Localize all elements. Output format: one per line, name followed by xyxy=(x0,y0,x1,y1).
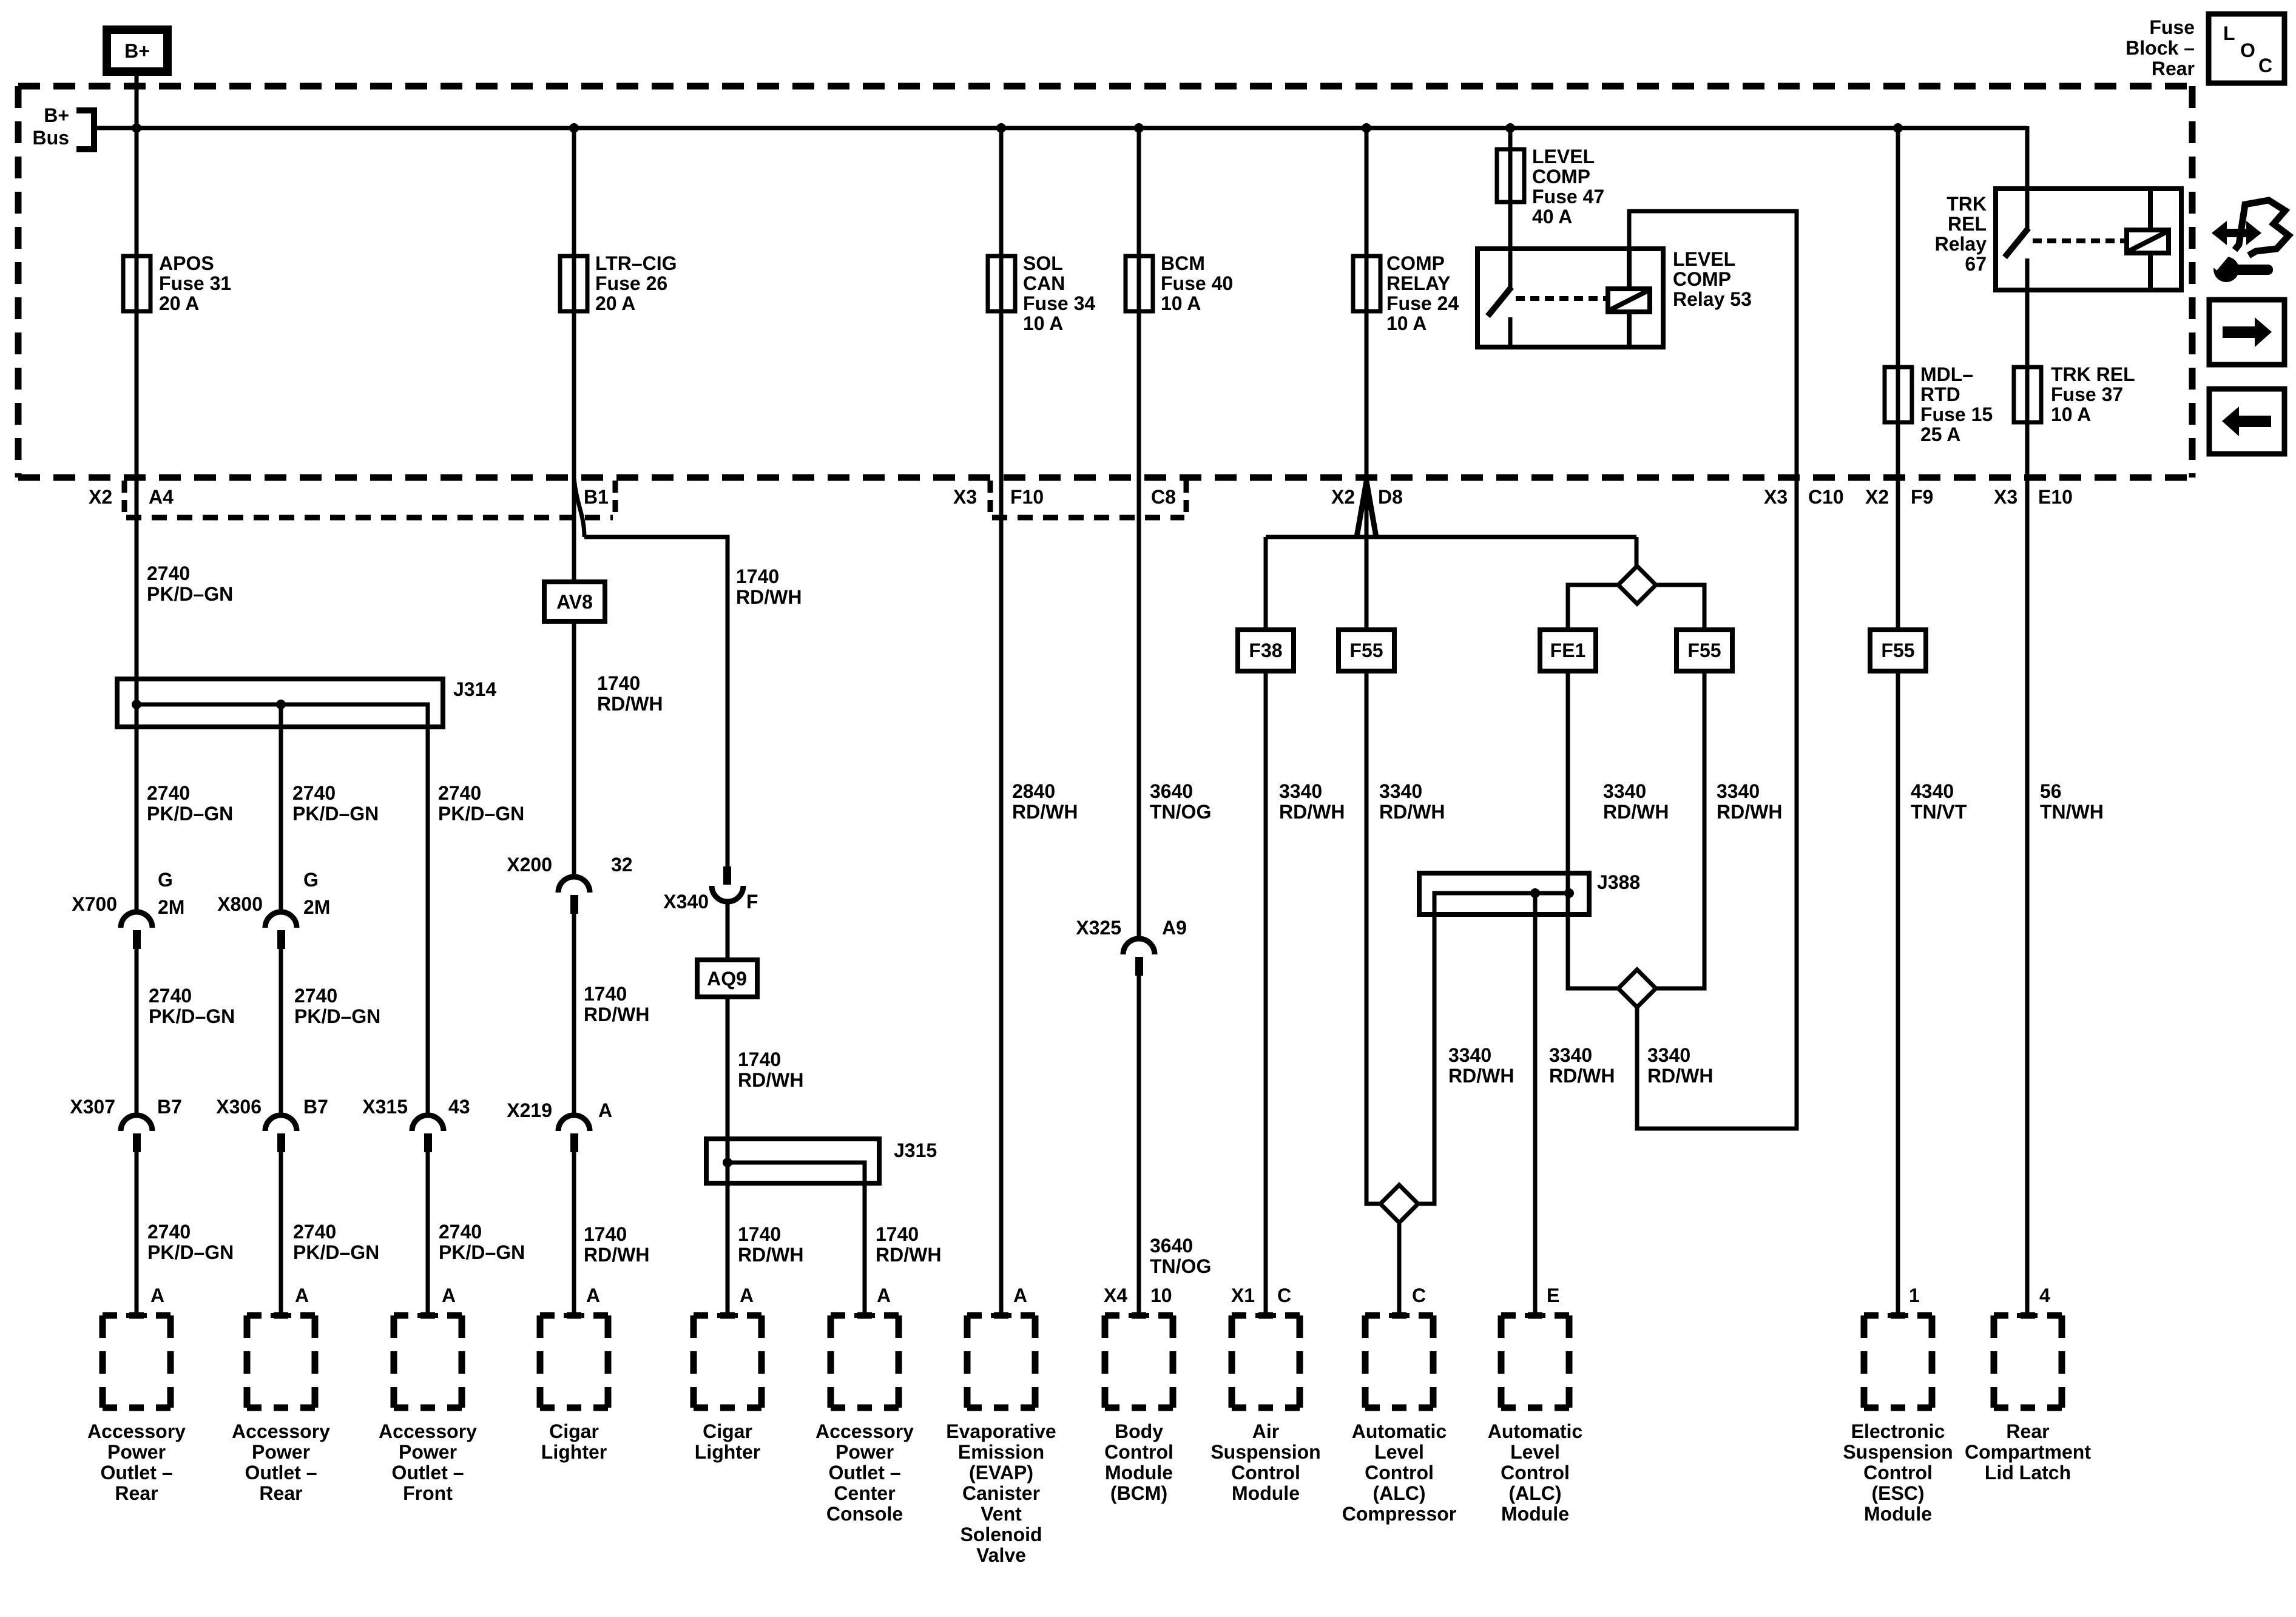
relay 67 switch lower stub xyxy=(2025,258,2030,290)
relay 53 switch lower stub xyxy=(1508,317,1513,347)
svg-text:E: E xyxy=(1547,1284,1559,1306)
wire B+ terminal to bus xyxy=(135,72,139,311)
fuse MDL-RTD Fuse 15 xyxy=(1885,367,1912,422)
pin bar box10 xyxy=(1389,1313,1410,1318)
wire LTR-CIG fuse to AV8 xyxy=(572,311,576,582)
wire AQ9 to J315 xyxy=(726,997,730,1315)
svg-text:F55: F55 xyxy=(1881,640,1914,661)
svg-text:F55: F55 xyxy=(1687,640,1721,661)
relay 67 switch upper stub xyxy=(2025,189,2030,229)
svg-text:B+: B+ xyxy=(124,40,150,62)
connector X800 pin bar xyxy=(277,930,285,949)
connector box accessory power outlet center console xyxy=(831,1315,899,1408)
svg-text:B7: B7 xyxy=(303,1096,328,1118)
relay 67 coil xyxy=(2127,230,2169,253)
svg-text:F10: F10 xyxy=(1010,486,1044,508)
relay LEVEL COMP Relay 53 box xyxy=(1477,249,1663,347)
wire D8 triangle xyxy=(1357,478,1376,537)
svg-text:1: 1 xyxy=(1909,1284,1920,1306)
wire bus to SOL CAN fuse xyxy=(999,128,1004,311)
svg-text:FE1: FE1 xyxy=(1550,640,1586,661)
svg-text:F9: F9 xyxy=(1911,486,1933,508)
wire diamond 2 to C10 xyxy=(1637,478,1797,1129)
terminal box F55 (diamond right leg) xyxy=(1676,630,1732,671)
terminal box F55 (MDL-RTD leg) xyxy=(1870,630,1926,671)
svg-text:X3: X3 xyxy=(1764,486,1788,508)
terminal box F38 xyxy=(1238,630,1294,671)
svg-text:X340: X340 xyxy=(663,891,709,913)
wire F55 to diamond 3 xyxy=(1366,671,1382,1204)
wire X200 to X219 xyxy=(572,914,576,1116)
fuse block dashed border right xyxy=(2189,86,2196,478)
wire branch to diamond 1 xyxy=(1635,537,1639,566)
node bus/LEVEL COMP fuse xyxy=(1505,123,1515,133)
wire relay 53 coil to C10 xyxy=(1629,211,1797,478)
connector box rear compartment lid latch xyxy=(1994,1315,2062,1408)
pin bar box9 xyxy=(1255,1313,1276,1318)
fuse LEVEL COMP Fuse 47 xyxy=(1497,149,1524,202)
svg-text:X700: X700 xyxy=(72,893,117,915)
connector X340 cup arc xyxy=(712,886,743,902)
wire branch to F38 xyxy=(1264,537,1268,630)
splice pack J314 box xyxy=(117,679,443,727)
wire X325 to BCM xyxy=(1137,976,1141,1315)
svg-text:X800: X800 xyxy=(217,893,263,915)
wire MDL-RTD fuse to F9 xyxy=(1896,422,1900,630)
wire X340 to AQ9 xyxy=(726,902,730,960)
wire B1 branch curve xyxy=(574,479,584,537)
wire bus to LTR-CIG fuse xyxy=(572,128,576,311)
wire SOL CAN fuse to EVAP valve xyxy=(999,311,1004,1315)
relay 67 actuator dashed link xyxy=(2033,238,2126,243)
node J388 FE1 wire xyxy=(1564,888,1574,898)
connector strip separator after X3 xyxy=(988,481,993,519)
svg-text:B+: B+ xyxy=(44,104,69,126)
diamond 2 xyxy=(1618,970,1656,1007)
node J314 wire1 xyxy=(132,700,141,709)
svg-text:F38: F38 xyxy=(1249,640,1282,661)
wire X315 to outlet front xyxy=(426,1152,430,1315)
svg-text:C8: C8 xyxy=(1151,486,1176,508)
node bus/COMP RELAY fuse xyxy=(1362,123,1371,133)
relay 53 switch upper stub xyxy=(1508,249,1513,288)
relay 67 switch blade xyxy=(2005,228,2028,257)
connector strip separator after B1 xyxy=(613,481,618,519)
connector X315 pin bar xyxy=(424,1133,432,1152)
svg-text:X306: X306 xyxy=(216,1096,262,1118)
connector X307 arc xyxy=(121,1115,152,1131)
terminal box FE1 xyxy=(1540,630,1596,671)
connector box ESC module xyxy=(1864,1315,1932,1408)
wire D8 down to F55 xyxy=(1365,537,1369,630)
wire bus to BCM fuse xyxy=(1137,128,1141,311)
connector X306 arc xyxy=(265,1115,297,1131)
svg-text:X2: X2 xyxy=(1331,486,1355,508)
svg-text:C: C xyxy=(1412,1284,1426,1306)
svg-text:X3: X3 xyxy=(1994,486,2017,508)
node J315 xyxy=(723,1158,732,1167)
icon arrow right box xyxy=(2209,300,2284,365)
svg-text:X200: X200 xyxy=(507,854,552,876)
B+ bus bracket xyxy=(76,110,94,149)
svg-text:A: A xyxy=(877,1284,891,1306)
svg-text:F: F xyxy=(746,891,758,913)
svg-text:C: C xyxy=(2258,55,2272,76)
svg-text:AutomaticLevelControl(ALC)Modu: AutomaticLevelControl(ALC)Module xyxy=(1488,1420,1582,1525)
svg-text:A: A xyxy=(586,1284,600,1306)
relay 53 switch blade xyxy=(1488,287,1511,316)
connector strip separator after X2 xyxy=(122,481,127,519)
B+ bus wire xyxy=(94,126,2027,130)
connector box cigar lighter 2 xyxy=(694,1315,761,1408)
fuse TRK REL Fuse 37 xyxy=(2014,367,2041,422)
connector box accessory power outlet rear 1 xyxy=(103,1315,171,1408)
wire TRK REL fuse to E10 xyxy=(2025,422,2030,1315)
svg-text:C10: C10 xyxy=(1808,486,1844,508)
wire diamond 1 right to F55 xyxy=(1656,585,1704,630)
connector box ALC module xyxy=(1501,1315,1569,1408)
svg-text:AccessoryPowerOutlet –CenterCo: AccessoryPowerOutlet –CenterConsole xyxy=(815,1420,914,1525)
svg-text:X219: X219 xyxy=(507,1099,552,1121)
wire X306 to outlet rear 2 xyxy=(279,1152,283,1315)
connector box ALC compressor xyxy=(1365,1315,1433,1408)
svg-text:CigarLighter: CigarLighter xyxy=(695,1420,760,1463)
fuse LTR-CIG Fuse 26 xyxy=(560,256,587,311)
svg-text:A: A xyxy=(740,1284,754,1306)
wire MDL-RTD F55 to ESC module xyxy=(1896,671,1900,1315)
connector box BCM xyxy=(1105,1315,1173,1408)
J314 internal bus xyxy=(137,704,428,727)
svg-text:X2: X2 xyxy=(89,486,112,508)
relay 67 divider lower xyxy=(2148,253,2153,290)
wire LEVEL COMP fuse to relay 53 xyxy=(1508,202,1513,249)
wire relay 67 to TRK REL fuse xyxy=(2025,290,2030,422)
connector strip separator after C8 xyxy=(1184,481,1189,519)
wire B1 branch horizontal xyxy=(584,537,728,866)
svg-text:D8: D8 xyxy=(1378,486,1403,508)
node J388 ALC module tap xyxy=(1530,888,1540,898)
wire F55 right leg to diamond 2 xyxy=(1656,671,1704,988)
junction box AV8 xyxy=(544,582,605,621)
junction box AQ9 xyxy=(697,960,757,997)
terminal box F55 (fuse 24 leg) xyxy=(1339,630,1394,671)
svg-text:10: 10 xyxy=(1150,1284,1172,1306)
J315 internal bus xyxy=(728,1163,865,1183)
svg-text:L: L xyxy=(2223,22,2235,44)
connector X219 pin bar xyxy=(570,1133,578,1152)
fuse APOS Fuse 31 xyxy=(123,256,150,311)
svg-text:J314: J314 xyxy=(453,678,496,700)
wire X219 to cigar lighter xyxy=(572,1152,576,1315)
connector X200 pin bar xyxy=(570,895,578,914)
svg-text:C: C xyxy=(1277,1284,1291,1306)
wire diamond 1 left to FE1 xyxy=(1568,585,1618,630)
svg-text:J388: J388 xyxy=(1597,871,1640,893)
wire J315 to center console outlet xyxy=(863,1183,867,1315)
svg-text:A: A xyxy=(150,1284,164,1306)
pin bar box2 xyxy=(271,1313,291,1318)
svg-text:EvaporativeEmission(EVAP)Canis: EvaporativeEmission(EVAP)CanisterVentSol… xyxy=(946,1420,1056,1566)
pin bar box8 xyxy=(1129,1313,1149,1318)
connector X340 pin bar xyxy=(723,866,731,885)
svg-text:A: A xyxy=(1013,1284,1027,1306)
connector X700 pin bar xyxy=(133,930,141,949)
fuse block dashed border left xyxy=(15,86,22,478)
connector X307 pin bar xyxy=(133,1133,141,1152)
wire APOS fuse to J314 xyxy=(135,311,139,913)
splice pack J388 box xyxy=(1419,873,1589,914)
pin bar box6 xyxy=(854,1313,875,1318)
fuse SOL CAN Fuse 34 xyxy=(988,256,1015,311)
svg-text:X2: X2 xyxy=(1865,486,1889,508)
wire J314 to X800 xyxy=(279,704,283,913)
connector strip X2/A4..B1 dashed line xyxy=(126,515,613,521)
pin bar box7 xyxy=(991,1313,1011,1318)
connector strip X3/F10..C8 dashed line xyxy=(992,515,1184,521)
svg-text:X4: X4 xyxy=(1104,1284,1127,1306)
wire X700 to X307 xyxy=(135,949,139,1116)
node bus/APOS xyxy=(132,123,141,133)
wire X800 to X306 xyxy=(279,949,283,1116)
connector X219 arc xyxy=(558,1115,590,1131)
svg-text:4: 4 xyxy=(2039,1284,2050,1306)
wire J388 to ALC module xyxy=(1533,893,1538,1315)
svg-text:X325: X325 xyxy=(1076,917,1121,939)
svg-text:43: 43 xyxy=(448,1096,470,1118)
relay 53 actuator dashed link xyxy=(1516,296,1607,301)
wire BCM fuse to X325 xyxy=(1137,311,1141,940)
svg-text:AV8: AV8 xyxy=(556,591,593,613)
node J314 wire2 xyxy=(276,700,286,709)
svg-text:A4: A4 xyxy=(149,486,174,508)
wire bus to LEVEL COMP fuse xyxy=(1508,128,1513,202)
svg-text:BodyControlModule(BCM): BodyControlModule(BCM) xyxy=(1104,1420,1173,1504)
node bus/BCM fuse xyxy=(1134,123,1144,133)
wire J314 to X315 xyxy=(426,727,430,1116)
bus corner to TRK REL relay xyxy=(2025,126,2030,189)
fuse COMP RELAY Fuse 24 xyxy=(1353,256,1380,311)
connector box air suspension module xyxy=(1232,1315,1300,1408)
connector X325 arc xyxy=(1123,939,1155,954)
relay 67 divider upper xyxy=(2148,189,2153,230)
svg-text:B1: B1 xyxy=(584,486,609,508)
connector box accessory power outlet rear 2 xyxy=(247,1315,315,1408)
pin bar box11 xyxy=(1525,1313,1545,1318)
pin bar box4 xyxy=(564,1313,584,1318)
icon arrow left box xyxy=(2209,389,2284,454)
node bus/MDL-RTD xyxy=(1893,123,1903,133)
relay 53 coil xyxy=(1608,289,1650,312)
wire FE1 to J388 to diamond 2 xyxy=(1568,671,1618,988)
pin bar box12 xyxy=(1888,1313,1908,1318)
relay TRK REL Relay 67 box xyxy=(1996,189,2181,290)
connector box cigar lighter 1 xyxy=(540,1315,608,1408)
diamond 1 xyxy=(1618,566,1656,604)
wire AV8 to X200 xyxy=(572,621,576,877)
svg-text:Bus: Bus xyxy=(33,127,69,149)
wire X307 to outlet rear 1 xyxy=(135,1152,139,1315)
svg-text:X1: X1 xyxy=(1231,1284,1255,1306)
LOC icon box xyxy=(2209,14,2284,83)
svg-text:CigarLighter: CigarLighter xyxy=(541,1420,607,1463)
connector X800 arc xyxy=(265,912,297,928)
svg-text:A: A xyxy=(442,1284,456,1306)
wire bus to COMP RELAY fuse xyxy=(1365,128,1369,311)
svg-text:A: A xyxy=(598,1099,612,1121)
wire F38 to air suspension module xyxy=(1264,671,1268,1315)
fuse block dashed border bottom xyxy=(18,474,2195,481)
svg-text:A9: A9 xyxy=(1162,917,1187,939)
icon wiring repair (double arrow, hook, wrench) xyxy=(2210,200,2289,282)
connector X700 arc xyxy=(121,912,152,928)
svg-text:O: O xyxy=(2240,39,2255,61)
connector X200 arc xyxy=(558,877,590,893)
svg-text:E10: E10 xyxy=(2038,486,2073,508)
svg-text:32: 32 xyxy=(611,854,633,876)
svg-text:AQ9: AQ9 xyxy=(707,968,747,990)
svg-text:X307: X307 xyxy=(70,1096,115,1118)
node bus/SOL CAN xyxy=(996,123,1006,133)
fuse block dashed border top xyxy=(18,83,2195,90)
svg-text:A: A xyxy=(295,1284,309,1306)
J388 internal bus xyxy=(1434,893,1570,914)
pin bar box5 xyxy=(717,1313,738,1318)
connector box EVAP valve xyxy=(967,1315,1035,1408)
splice pack J315 box xyxy=(706,1139,879,1183)
pin bar box3 xyxy=(417,1313,438,1318)
wire bus to MDL-RTD fuse xyxy=(1896,128,1900,422)
B+ terminal box xyxy=(107,30,167,72)
wire diamond 3 to ALC compressor xyxy=(1397,1223,1402,1315)
svg-text:F55: F55 xyxy=(1349,640,1383,661)
svg-text:X3: X3 xyxy=(953,486,977,508)
wire D8 branch horizontal xyxy=(1266,535,1636,539)
diamond 3 xyxy=(1380,1185,1418,1223)
pin bar box13 xyxy=(2017,1313,2038,1318)
node bus/LTR-CIG xyxy=(569,123,579,133)
connector X306 pin bar xyxy=(277,1133,285,1152)
fuse BCM Fuse 40 xyxy=(1126,256,1153,311)
connector box accessory power outlet front xyxy=(394,1315,462,1408)
wire COMP RELAY fuse to D8 xyxy=(1365,311,1369,479)
pin bar box1 xyxy=(126,1313,147,1318)
relay 53 divider lower xyxy=(1627,312,1632,347)
connector X325 pin bar xyxy=(1135,957,1143,976)
svg-text:B7: B7 xyxy=(157,1096,182,1118)
connector X315 arc xyxy=(412,1115,444,1131)
relay 53 divider upper xyxy=(1627,249,1632,289)
svg-text:X315: X315 xyxy=(362,1096,408,1118)
svg-text:J315: J315 xyxy=(894,1139,937,1161)
wire J388 to diamond 3 xyxy=(1419,914,1434,1204)
